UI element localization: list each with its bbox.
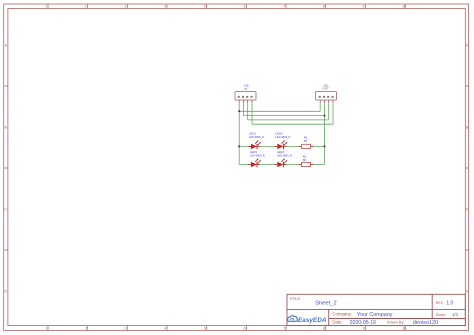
column ticks bottom	[48, 326, 405, 331]
svg-text:LED3: LED3	[250, 150, 258, 154]
svg-text:A: A	[5, 43, 8, 47]
svg-text:2020-05-16: 2020-05-16	[350, 320, 377, 326]
J16 pin numbers	[238, 96, 253, 98]
svg-text:9: 9	[363, 5, 365, 9]
svg-text:2: 2	[85, 5, 87, 9]
svg-text:3: 3	[125, 5, 127, 9]
junction dots	[238, 110, 325, 147]
svg-text:D: D	[4, 289, 7, 293]
svg-text:1/1: 1/1	[452, 312, 459, 317]
svg-text:1.0: 1.0	[446, 301, 453, 307]
svg-text:1: 1	[45, 5, 47, 9]
row ticks right	[465, 86, 468, 250]
J15 pin numbers	[319, 96, 334, 98]
svg-text:2: 2	[85, 327, 87, 331]
svg-text:7: 7	[283, 327, 285, 331]
svg-text:10: 10	[402, 327, 406, 331]
svg-text:B: B	[466, 125, 469, 129]
wire: J15 pin3 vertical	[328, 103, 330, 120]
svg-text:LED1: LED1	[249, 131, 257, 135]
svg-text:68: 68	[303, 158, 307, 162]
wire: J15 pin1 vertical	[319, 103, 321, 111]
svg-text:LED-0805_R: LED-0805_R	[275, 135, 290, 139]
LED LED2	[277, 140, 287, 149]
column ticks top	[48, 4, 405, 9]
svg-text:C: C	[466, 207, 469, 211]
svg-text:REV:: REV:	[436, 301, 444, 305]
column numbers top	[45, 5, 406, 9]
svg-text:1: 1	[45, 327, 47, 331]
row letters right	[466, 43, 469, 293]
svg-text:Your Company: Your Company	[357, 312, 393, 318]
wire: J15 pin2 vertical down to R2 row	[324, 103, 326, 164]
svg-text:EasyEDA: EasyEDA	[298, 317, 327, 324]
svg-text:Sheet_2: Sheet_2	[315, 301, 337, 307]
svg-text:LED-0805_R: LED-0805_R	[277, 153, 292, 157]
svg-text:LED-0805_R: LED-0805_R	[249, 135, 264, 139]
connector J15 pins (stubs)	[320, 100, 333, 103]
wire: horizontal net 4	[252, 123, 333, 125]
wire: J15 pin4 vertical	[332, 103, 334, 124]
component pin stubs (red)	[248, 146, 314, 164]
wire: J16 pin1 vertical down to LED row 2	[239, 103, 333, 164]
svg-text:B: B	[5, 125, 8, 129]
resistor R2	[301, 162, 310, 166]
connector J16 pins (stubs)	[239, 100, 252, 103]
LED LED4	[277, 159, 287, 168]
svg-text:Drawn By:: Drawn By:	[387, 321, 405, 325]
svg-text:5: 5	[204, 5, 206, 9]
svg-text:IN: IN	[244, 87, 247, 91]
svg-text:9: 9	[363, 327, 365, 331]
row letters left	[4, 43, 7, 293]
svg-text:4: 4	[164, 5, 166, 9]
svg-text:7: 7	[283, 5, 285, 9]
connector J16 body	[235, 92, 256, 101]
svg-text:4: 4	[164, 327, 166, 331]
wire: LED row 2	[239, 164, 324, 166]
row ticks left	[4, 86, 8, 250]
svg-text:C: C	[4, 207, 7, 211]
svg-text:8: 8	[323, 5, 325, 9]
EasyEDA logo cloud	[288, 316, 298, 322]
svg-text:Sheet:: Sheet:	[436, 313, 446, 317]
LED LED1	[251, 140, 261, 149]
svg-text:LED4: LED4	[277, 150, 285, 154]
wire: LED row 1	[239, 145, 324, 147]
svg-text:5: 5	[204, 327, 206, 331]
wire: horizontal net 2	[244, 115, 325, 117]
svg-text:D: D	[466, 289, 469, 293]
svg-text:LED-0805_R: LED-0805_R	[250, 153, 265, 157]
svg-text:TITLE:: TITLE:	[289, 296, 301, 301]
LED LED3	[251, 159, 261, 168]
svg-text:deniso120: deniso120	[413, 320, 438, 326]
wire: J16 pin3 vertical	[247, 103, 249, 120]
column numbers bottom	[45, 327, 406, 331]
svg-text:OUT: OUT	[323, 87, 330, 91]
svg-text:Date:: Date:	[332, 320, 342, 325]
wire: J16 pin4 vertical	[251, 103, 253, 124]
svg-text:6: 6	[244, 5, 246, 9]
svg-text:6: 6	[244, 327, 246, 331]
resistor R1	[301, 144, 310, 148]
svg-text:LED2: LED2	[275, 131, 283, 135]
svg-text:A: A	[466, 43, 469, 47]
svg-text:68: 68	[304, 139, 308, 143]
wire: horizontal net 1	[239, 110, 320, 112]
connector J15 body	[316, 92, 337, 101]
wire: J16 pin2 vertical	[243, 103, 245, 115]
svg-text:10: 10	[402, 5, 406, 9]
svg-text:8: 8	[323, 327, 325, 331]
svg-text:3: 3	[125, 327, 127, 331]
svg-text:Company:: Company:	[332, 311, 352, 316]
wire: horizontal net 3	[248, 119, 329, 121]
